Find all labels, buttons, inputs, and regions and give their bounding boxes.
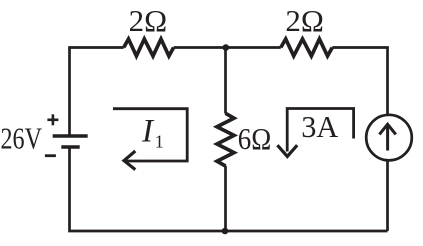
wire right below current source: [386, 160, 389, 231]
wire middle branch lower: [224, 166, 227, 231]
wire bottom: [70, 147, 388, 231]
node junction dot top: [223, 44, 230, 51]
svg-text:2Ω: 2Ω: [129, 4, 168, 38]
wire middle branch upper: [224, 48, 227, 114]
label 6ohm: [238, 122, 271, 156]
label 2ohm right: [285, 4, 324, 38]
svg-text:26V: 26V: [1, 121, 43, 156]
resistor R1 2ohm left zigzag: [124, 39, 174, 56]
label 3A: [301, 109, 339, 144]
node junction dot bottom: [222, 228, 229, 235]
voltage source V1 26V battery plates: [53, 136, 88, 147]
svg-text:2Ω: 2Ω: [285, 4, 324, 38]
current source arrow up: [379, 124, 395, 150]
svg-text:I: I: [141, 113, 155, 149]
resistor R2 2ohm right zigzag: [281, 39, 333, 56]
label I1: [141, 113, 164, 151]
wire top-left segment: [70, 48, 124, 137]
svg-text:6Ω: 6Ω: [238, 122, 271, 156]
current label 3A bracket arrow: [277, 109, 353, 157]
battery minus sign: [45, 154, 56, 157]
svg-text:1: 1: [155, 132, 164, 152]
svg-text:3A: 3A: [301, 109, 339, 144]
wire top-right segment: [332, 48, 387, 116]
battery plus sign: [47, 114, 58, 125]
label 2ohm left: [129, 4, 168, 38]
wire top middle segment: [174, 46, 281, 49]
mesh current I1 loop arrow: [113, 109, 187, 170]
label 26V: [1, 121, 43, 156]
current source I2 circle: [366, 115, 412, 161]
resistor R3 6ohm vertical zigzag: [217, 113, 234, 166]
